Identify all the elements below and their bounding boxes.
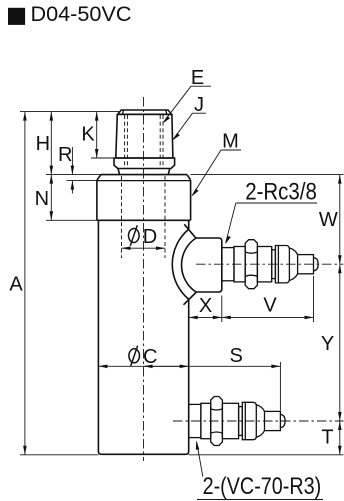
cap hidden thread lines — [124, 115, 126, 169]
extension line S right (nose face) — [279, 362, 281, 411]
cylinder section — [222, 403, 238, 438]
dimension S — [144, 365, 281, 367]
dimension V — [222, 316, 314, 318]
dimension A — [24, 112, 26, 455]
nose — [298, 255, 314, 274]
dimension X — [189, 316, 222, 318]
svg-text:2-Rc3/8: 2-Rc3/8 — [245, 178, 317, 205]
cap rim — [118, 110, 172, 114]
ball tip — [314, 258, 319, 271]
svg-text:S: S — [230, 345, 243, 367]
cylinder section — [257, 247, 271, 282]
svg-text:A: A — [9, 274, 23, 296]
extension line N bottom (head bottom) — [46, 219, 98, 221]
extension line X/V boss face — [221, 296, 223, 323]
dimension T — [339, 421, 341, 455]
svg-text:D04-50VC: D04-50VC — [31, 2, 132, 26]
boss face plate — [196, 238, 222, 292]
band — [275, 246, 289, 283]
dimension phiC — [98, 365, 188, 367]
hex nut — [211, 397, 223, 446]
extension line bottom left (A) — [20, 454, 98, 456]
extension line R bottom — [67, 180, 97, 182]
extension line head top right (W) — [191, 174, 344, 176]
svg-text:N: N — [35, 188, 49, 210]
dimension N — [50, 175, 52, 221]
cap body — [116, 114, 173, 158]
svg-text:V: V — [263, 295, 277, 317]
dimension Y — [339, 264, 341, 421]
svg-text:J: J — [194, 94, 204, 116]
washer — [234, 247, 245, 282]
head top edge — [101, 174, 187, 176]
title block square — [8, 8, 25, 25]
top fitting (coupler) — [222, 240, 318, 289]
boss outer intersection arc — [172, 229, 188, 299]
svg-text:D: D — [143, 226, 157, 248]
boss inner arc — [182, 238, 196, 292]
taper — [256, 405, 264, 437]
body outline — [98, 220, 188, 454]
centerline top port — [196, 263, 344, 265]
svg-text:Y: Y — [321, 333, 334, 355]
svg-text:C: C — [143, 346, 157, 368]
extension line K bottom (flange top) — [91, 157, 115, 159]
extension line bottom right (T) — [189, 454, 344, 456]
centerline vertical (cylinder axis) — [143, 97, 145, 461]
dimension W — [339, 175, 341, 265]
boss top chamfer — [184, 224, 196, 238]
head sides — [97, 180, 191, 220]
cap flange — [114, 158, 175, 169]
bottom fitting (coupler) — [189, 397, 285, 446]
dimension H — [50, 112, 52, 175]
dimension R (arrows outside) — [71, 147, 73, 175]
groove — [239, 407, 243, 436]
head groove line — [97, 180, 191, 182]
extension line V right (nose face) — [313, 276, 315, 322]
boss bottom chamfer — [184, 292, 197, 305]
washer — [201, 403, 211, 438]
svg-text:E: E — [191, 67, 204, 89]
dimension K — [96, 112, 98, 158]
svg-text:W: W — [319, 209, 338, 231]
nipple — [222, 248, 234, 281]
ball tip — [280, 414, 285, 427]
extension line head top left (H N R) — [46, 174, 102, 176]
svg-text:M: M — [222, 130, 239, 152]
centerline bottom port — [173, 420, 344, 422]
svg-text:X: X — [199, 295, 212, 317]
dimension phiD — [122, 247, 166, 249]
taper — [289, 248, 297, 280]
band — [242, 402, 256, 439]
nipple — [189, 404, 201, 437]
svg-text:T: T — [321, 426, 333, 448]
svg-text:K: K — [81, 123, 95, 145]
body bore hidden lines — [121, 176, 123, 258]
head chamfers — [97, 175, 191, 180]
svg-text:R: R — [58, 144, 72, 166]
nose — [265, 411, 281, 430]
svg-text:H: H — [36, 133, 50, 155]
cap neck — [118, 169, 170, 175]
head bottom line — [97, 219, 191, 221]
svg-text:2-(VC-70-R3): 2-(VC-70-R3) — [203, 473, 322, 500]
groove — [272, 250, 276, 279]
hex nut — [245, 240, 257, 289]
extension line top (A H K) — [20, 111, 121, 113]
